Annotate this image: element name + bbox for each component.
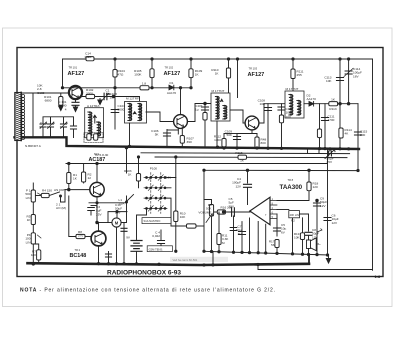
node r18: [308, 169, 311, 172]
resistor R113: [329, 102, 338, 106]
svg-text:100: 100: [286, 115, 291, 119]
amplifier TAA300 triangle: [250, 197, 270, 224]
wire drop x340: [339, 59, 341, 149]
capacitor C2 022: [160, 230, 162, 250]
svg-text:Ved ha canm 60-501: Ved ha canm 60-501: [173, 258, 198, 262]
svg-text:AO (M): AO (M): [56, 206, 66, 210]
node collector bc: [96, 221, 99, 224]
svg-text:D1: D1: [170, 81, 174, 85]
capacitor C3a: [91, 205, 97, 207]
switch S1A lever: [127, 195, 134, 202]
wire AC187 rail drop a: [68, 164, 70, 173]
transistor TR1 AC187: [90, 182, 104, 196]
node base: [68, 188, 71, 191]
svg-text:AS CRN: AS CRN: [54, 188, 66, 192]
node switch feed: [125, 146, 128, 149]
svg-text:AF127: AF127: [164, 71, 181, 77]
motor M1: [112, 218, 121, 227]
wire top supply bus: [63, 58, 373, 60]
capacitor C8: [305, 232, 312, 235]
svg-text:3300: 3300: [86, 92, 93, 96]
wire pin3 P2: [277, 209, 289, 211]
wire mid rail y153: [141, 152, 350, 155]
svg-text:RADIOPHONOBOX 6-93: RADIOPHONOBOX 6-93: [107, 271, 182, 277]
capacitor C5: [232, 208, 235, 217]
capacitor C108: [267, 104, 269, 149]
svg-text:56: 56: [271, 243, 275, 247]
transistor TR101: [69, 86, 82, 99]
svg-text:1-8: 1-8: [375, 274, 382, 279]
svg-text:120: 120: [313, 185, 318, 189]
resistor R110: [226, 68, 230, 78]
wire wiper: [36, 195, 41, 197]
resistor R10: [175, 157, 177, 211]
wire switch bottom drops: [137, 208, 147, 240]
wire drop x348: [348, 59, 350, 104]
potentiometer P2 box: [289, 211, 300, 218]
T3 windings: [291, 95, 293, 116]
svg-text:M: M: [222, 241, 225, 245]
resistor R1: [67, 173, 71, 184]
resistor R116: [319, 104, 321, 149]
svg-text:M 17TNT: M 17TNT: [212, 89, 225, 93]
svg-text:M 12TRF: M 12TRF: [126, 97, 139, 101]
resistor R16in: [217, 210, 225, 214]
switch contacts: [144, 177, 167, 179]
svg-text:AA170: AA170: [167, 91, 177, 95]
trimmer box pair on bus: [84, 133, 103, 143]
variable capacitor C1a: [42, 123, 44, 125]
svg-text:10K: 10K: [259, 102, 265, 106]
wire BC148 emitter: [98, 246, 100, 263]
wire r3: [138, 157, 140, 188]
svg-text:20K LIN: 20K LIN: [290, 213, 299, 217]
svg-text:1300: 1300: [214, 138, 221, 142]
scan note strip: [170, 257, 228, 262]
wire drop x237.5: [237, 59, 239, 98]
wire TR102 emitter: [177, 128, 179, 134]
svg-text:S1A NASTRO: S1A NASTRO: [144, 219, 161, 223]
wire drop x228.5: [228, 59, 230, 98]
svg-text:1µ: 1µ: [195, 108, 199, 112]
variable capacitor C1b: [50, 118, 52, 124]
svg-text:12V: 12V: [320, 204, 326, 208]
svg-text:TR 101: TR 101: [69, 65, 78, 69]
schematic border frame: [17, 48, 383, 277]
capacitor C110 with resistor: [281, 104, 283, 149]
resistor R19: [302, 218, 304, 233]
resistor R2: [82, 172, 86, 182]
wire rail stub a: [307, 149, 309, 153]
resistor R100 in bus: [86, 57, 94, 61]
svg-text:10: 10: [110, 96, 114, 100]
svg-text:TR 8: TR 8: [288, 178, 294, 182]
svg-text:0,022: 0,022: [152, 234, 160, 238]
wire base tap down: [32, 93, 34, 137]
potentiometer P1: [31, 190, 35, 202]
capacitor C9: [316, 201, 318, 255]
wire left bus drop: [62, 59, 64, 88]
resistor R17: [275, 240, 279, 248]
wire input line: [214, 211, 250, 213]
padder trimmers: [87, 134, 91, 140]
resistor R5: [31, 215, 35, 225]
wire TR102 collector to T2: [187, 104, 211, 122]
svg-text:12V: 12V: [235, 184, 241, 188]
svg-text:P100: P100: [150, 167, 158, 171]
resistor R109: [189, 69, 193, 78]
wire T2 to TR103 base: [230, 110, 245, 123]
wire tune tap: [43, 117, 74, 125]
capacitor C2b: [108, 252, 110, 263]
wire TR103 collector: [259, 104, 285, 123]
svg-text:N.BRN07 A: N.BRN07 A: [25, 144, 42, 148]
wire drop x152: [151, 59, 153, 88]
svg-text:R115: R115: [235, 151, 242, 155]
wire drop x191: [190, 59, 192, 88]
wire emitter link: [89, 202, 126, 204]
svg-text:50K: 50K: [226, 133, 232, 137]
wire node to T1: [114, 97, 140, 101]
resistor R11: [218, 212, 220, 234]
svg-text:P101: P101: [164, 175, 172, 179]
resistor R112b: [256, 134, 258, 138]
svg-text:18V: 18V: [353, 74, 359, 78]
wire thin rail drops: [212, 252, 214, 265]
svg-text:10K: 10K: [180, 215, 186, 219]
oscillator coil L2 box: [85, 108, 104, 138]
svg-text:12: 12: [88, 176, 92, 180]
wire drop x293: [292, 59, 294, 91]
svg-text:M 17TNT: M 17TNT: [286, 87, 299, 91]
wire AC187 base: [65, 189, 90, 191]
svg-text:TR 103: TR 103: [249, 66, 258, 70]
svg-text:25V: 25V: [96, 212, 102, 216]
wire triangle bottom drop: [250, 218, 266, 253]
wire T1 to TR102 base: [146, 112, 174, 122]
IF transformer T1 box: [125, 102, 147, 124]
svg-text:LIN: LIN: [26, 240, 31, 244]
wire mid rail y163.5: [66, 163, 328, 165]
wire AC187 collector top: [96, 164, 98, 183]
capacitor C109: [236, 134, 238, 149]
resistor R107: [181, 128, 183, 136]
svg-text:NOTA - Per alimentazione con t: NOTA - Per alimentazione con tensione al…: [20, 287, 275, 293]
wire C115 drop x358: [357, 104, 359, 171]
switch S2 lever: [49, 192, 59, 196]
svg-text:TR 6.8-30: TR 6.8-30: [95, 153, 109, 157]
diode D2: [309, 102, 314, 107]
T1 windings: [130, 104, 132, 121]
wire T2 bottom: [216, 121, 218, 147]
wire BC148 collector: [98, 223, 100, 232]
tension selector box: [147, 246, 172, 252]
wire thick ground bus: [28, 263, 310, 265]
wire pin4 down: [276, 214, 278, 236]
svg-text:10K: 10K: [294, 236, 300, 240]
resistor R111: [291, 69, 295, 79]
svg-text:BC148: BC148: [70, 253, 87, 259]
antenna ferrite rod: [15, 93, 21, 141]
wire AGC line: [63, 87, 192, 89]
wire drop x115: [114, 59, 116, 129]
svg-text:G2M TENS.: G2M TENS.: [149, 247, 164, 251]
svg-text:25V: 25V: [115, 210, 121, 214]
svg-text:25V: 25V: [327, 160, 333, 164]
junction dots: [114, 58, 116, 60]
node detector: [339, 102, 342, 105]
capacitor C111: [324, 104, 326, 149]
wire ground bus turnup: [308, 255, 310, 264]
svg-text:12V: 12V: [312, 235, 318, 239]
wire p2 out: [300, 214, 309, 231]
svg-text:S1A: S1A: [119, 202, 126, 206]
svg-text:AA170: AA170: [307, 97, 317, 101]
wire mid rail y157: [155, 156, 347, 159]
resistor R112e: [224, 133, 237, 135]
wire right supply drop: [372, 59, 374, 270]
wire rail stub b: [318, 149, 320, 154]
ground arrow: [326, 259, 330, 264]
resistor R4: [41, 193, 49, 197]
svg-text:P2: P2: [291, 219, 295, 223]
svg-text:390: 390: [187, 140, 192, 144]
svg-text:AF127: AF127: [248, 72, 265, 78]
node c4: [246, 169, 249, 172]
resistor R9: [187, 224, 197, 228]
resistor R7: [33, 244, 38, 250]
capacitor C13m: [123, 223, 125, 264]
svg-text:PIE6: PIE6: [85, 55, 92, 59]
capacitor C106: [166, 130, 168, 147]
svg-text:VOLUME: VOLUME: [198, 210, 211, 214]
switch label box: [142, 218, 171, 224]
trimmer C3: [73, 125, 75, 127]
transistor TR2 BC148: [91, 231, 106, 246]
wire audio rail y252: [204, 251, 329, 255]
speaker SP: [307, 240, 311, 249]
trimmer capacitor CT1: [104, 93, 107, 100]
svg-text:25V: 25V: [229, 204, 235, 208]
svg-text:100K: 100K: [134, 73, 142, 77]
potentiometer P4: [31, 233, 35, 244]
node collector: [112, 95, 115, 98]
resistor R3: [136, 174, 140, 182]
svg-text:4700: 4700: [328, 118, 335, 122]
svg-text:5000: 5000: [118, 108, 125, 112]
svg-text:10K: 10K: [106, 92, 112, 96]
svg-text:200: 200: [360, 133, 365, 137]
capacitor C107 and resistor R52: [204, 104, 206, 148]
potentiometer P3: [204, 200, 212, 205]
diode D1: [169, 85, 174, 90]
capacitor C114: [345, 71, 352, 74]
svg-text:6800: 6800: [45, 99, 52, 103]
wire volume pot: [203, 170, 205, 251]
wire motor feed upper: [108, 212, 127, 223]
resistor R115 on rail: [238, 155, 247, 159]
capacitor C115: [355, 132, 362, 135]
wire TR102 AGC: [180, 88, 182, 115]
svg-text:TR 2: TR 2: [75, 248, 81, 252]
svg-text:TR 102: TR 102: [165, 65, 174, 69]
resistor R18: [308, 170, 310, 182]
svg-text:270: 270: [78, 234, 83, 238]
svg-text:TAA300: TAA300: [280, 184, 303, 191]
wire speaker gnd: [308, 249, 310, 255]
wire detector line: [304, 103, 358, 105]
svg-text:100: 100: [31, 253, 36, 257]
wire motor bottom: [116, 227, 118, 263]
resistor R114: [339, 128, 343, 138]
wire AC187 rail drop b: [83, 164, 85, 173]
capacitor C4: [247, 170, 249, 183]
svg-text:AC187: AC187: [89, 157, 106, 163]
wire volume feed y170: [204, 169, 358, 171]
TAA300 pins: [270, 201, 277, 219]
resistor R104: [113, 70, 117, 78]
svg-text:1.8: 1.8: [142, 82, 147, 86]
svg-text:255: 255: [297, 73, 302, 77]
transistor TR102: [174, 115, 188, 129]
resistor R108 1.8M: [140, 86, 149, 90]
wire AC187 emitter: [96, 197, 98, 223]
svg-text:LIN: LIN: [26, 196, 31, 200]
resistor R8: [76, 234, 85, 238]
capacitor C10: [274, 228, 281, 231]
wire antenna to base: [22, 92, 69, 94]
wire base chain: [69, 196, 76, 237]
battery B1: [136, 252, 138, 264]
resistor R102: [86, 94, 95, 98]
wire left chain: [32, 183, 34, 264]
wire p2 branch drop: [292, 218, 294, 254]
svg-text:10K: 10K: [326, 79, 332, 83]
T2 windings: [217, 97, 219, 119]
capacitor C101 and arrow: [75, 99, 77, 102]
svg-text:12V: 12V: [332, 221, 338, 225]
capacitor C7: [241, 222, 243, 253]
wire TR103 emitter split: [237, 130, 257, 134]
svg-text:R4 150: R4 150: [42, 189, 52, 193]
wire pin1 to R18: [277, 191, 309, 201]
capacitor C104: [111, 110, 119, 113]
capacitor C11: [233, 216, 235, 252]
svg-text:4: 4: [65, 107, 67, 111]
oscillator coil windings: [90, 112, 92, 136]
resistor R105: [150, 69, 154, 78]
capacitor C6: [327, 149, 329, 255]
svg-text:800: 800: [261, 141, 266, 145]
node T2 in: [204, 102, 207, 105]
wire switch right taps: [167, 178, 176, 227]
wire thick tuning bus: [15, 137, 360, 149]
switch block P100 P101 dashed: [151, 173, 161, 214]
wire T1 bottom to bus: [129, 123, 131, 146]
wire switch feed: [126, 148, 128, 173]
wire inner bottom return: [258, 265, 373, 270]
wire motor line: [97, 222, 112, 224]
capacitor C112 with arrow: [329, 149, 331, 151]
wire collector line: [82, 96, 124, 98]
capacitor C113: [337, 78, 344, 81]
transistor TR103: [245, 116, 259, 130]
trimmer C2: [63, 122, 65, 124]
svg-text:A 12TRA: A 12TRA: [87, 104, 100, 108]
svg-text:M: M: [115, 220, 119, 225]
wire motor top feed: [121, 196, 126, 223]
IF transformer T3 box: [285, 91, 304, 118]
resistor R101: [60, 93, 62, 97]
wire emitter branch: [167, 129, 178, 131]
arrow to ground stage1: [99, 99, 101, 100]
node ground left: [32, 263, 35, 266]
IF transformer T2 box: [211, 93, 230, 121]
svg-text:C1: C1: [40, 121, 44, 125]
svg-text:47Ω: 47Ω: [118, 73, 124, 77]
svg-text:AF127: AF127: [68, 71, 85, 77]
svg-text:R113: R113: [329, 107, 336, 111]
